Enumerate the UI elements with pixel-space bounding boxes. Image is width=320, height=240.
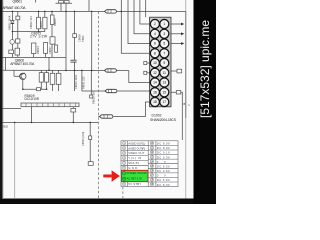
fuse F1 on top bus bbox=[105, 10, 117, 13]
svg-text:R8611 222: R8611 222 bbox=[82, 76, 86, 89]
green highlight row bbox=[122, 170, 148, 181]
box right of row6 bbox=[177, 69, 182, 73]
svg-text:R8604: R8604 bbox=[36, 46, 40, 54]
svg-text:[517x532] upic.me: [517x532] upic.me bbox=[198, 20, 212, 118]
svg-text:C8540 (GM): C8540 (GM) bbox=[81, 132, 85, 146]
wire vertical x=91.7 bbox=[91, 11, 93, 70]
resistor tall box x=44.8 bbox=[43, 17, 47, 29]
svg-text:VIDEO OUT: VIDEO OUT bbox=[128, 151, 144, 155]
svg-text:DC 0.1V: DC 0.1V bbox=[157, 151, 170, 155]
diode on x=74.5 bbox=[73, 34, 77, 38]
table text left bbox=[128, 141, 145, 186]
pads left of rows5-6 bbox=[144, 62, 147, 65]
svg-text:DC 8.5V: DC 8.5V bbox=[157, 165, 170, 169]
svg-text:D1902: D1902 bbox=[152, 114, 162, 118]
svg-text:Q8601: Q8601 bbox=[13, 0, 23, 4]
svg-text:11: 11 bbox=[163, 71, 167, 75]
svg-text:1: 1 bbox=[163, 22, 165, 26]
wire row8 right stub bbox=[171, 92, 182, 140]
wire tick x=35.5 top bbox=[35, 0, 37, 3]
svg-text:R8612 100: R8612 100 bbox=[91, 91, 95, 104]
svg-text:DC 5.0V: DC 5.0V bbox=[157, 178, 170, 182]
svg-text:AP5A6T 400-70A: AP5A6T 400-70A bbox=[10, 62, 35, 66]
fuse F3 y=91 bbox=[105, 89, 117, 92]
wire vertical x=12.4 bbox=[11, 11, 13, 31]
wire vertical x=14.7 bottom bbox=[14, 122, 16, 198]
resistor box x=52 tall bbox=[50, 15, 54, 25]
component boxes upper-left bbox=[9, 1, 182, 166]
svg-text:27V 1/2W: 27V 1/2W bbox=[30, 35, 47, 39]
wire horizontal y=31.6 bbox=[12, 31, 44, 33]
wire bus y=122.4 bbox=[2, 121, 98, 123]
wire vertical x=17.8 bbox=[17, 11, 19, 57]
svg-text:4: 4 bbox=[154, 32, 156, 36]
svg-text:16: 16 bbox=[153, 91, 157, 95]
lower band box 5 bbox=[55, 45, 58, 52]
wire vertical x=66 bbox=[65, 11, 67, 70]
svg-text:C8604: C8604 bbox=[39, 21, 43, 29]
table text right bbox=[157, 142, 170, 187]
wire Q8602 base bbox=[14, 75, 20, 77]
svg-text:TB8C: TB8C bbox=[81, 35, 85, 42]
connector pin numbers bbox=[153, 22, 166, 104]
boxes under bus70 bbox=[50, 73, 55, 84]
svg-text:R8605: R8605 bbox=[53, 18, 57, 26]
svg-text:C8607: C8607 bbox=[48, 46, 52, 54]
svg-text:15: 15 bbox=[162, 91, 166, 95]
wire stub x=45 lower bbox=[45, 53, 47, 57]
resistor box x=52 second bbox=[50, 37, 55, 44]
svg-text:SDA 5V: SDA 5V bbox=[128, 161, 139, 165]
voltage table bbox=[121, 141, 178, 187]
svg-text:13: 13 bbox=[162, 81, 166, 85]
wire stair to row4 bbox=[121, 0, 149, 53]
diode symbol on x=12.4 bbox=[11, 21, 15, 24]
wire vertical x=49 bbox=[48, 57, 50, 70]
svg-text:7: 7 bbox=[163, 52, 165, 56]
wire elbow to row7 bbox=[129, 71, 150, 83]
red arrow bbox=[103, 170, 120, 181]
wire right arrows rows 1-3 bbox=[171, 23, 181, 25]
wire fuse line row9 bbox=[98, 116, 99, 118]
svg-text:C8610 1000: C8610 1000 bbox=[74, 74, 78, 89]
svg-text:R8601 100K: R8601 100K bbox=[7, 15, 11, 30]
fuse F4 y=116.5 bbox=[100, 115, 113, 118]
svg-text:6: 6 bbox=[154, 42, 156, 46]
svg-text:G: G bbox=[188, 103, 190, 107]
wire top bus bbox=[2, 10, 186, 12]
wire fuse line row8 bbox=[82, 90, 105, 92]
zener under strip bbox=[71, 109, 76, 113]
transistor circle x=12.4 bbox=[10, 40, 15, 45]
wire stair to row3 bbox=[128, 0, 150, 44]
wire vertical x=44.8 bbox=[44, 11, 46, 31]
wire bus y=108.6 left bbox=[2, 108, 21, 110]
svg-text:DC 3.3V: DC 3.3V bbox=[157, 155, 170, 159]
wire vertical x=52 long bbox=[51, 11, 53, 57]
black frame: left edge bbox=[0, 0, 2, 204]
zener on x=17.8 bbox=[16, 39, 20, 43]
top pin boxes bbox=[59, 1, 64, 3]
svg-text:POWER ON/OFF: POWER ON/OFF bbox=[127, 171, 148, 175]
junction dots bbox=[12, 11, 123, 124]
table circled numbers col3 bbox=[150, 141, 153, 186]
wire vertical x=90.2 bottom bbox=[89, 122, 91, 135]
wire stair to row1 bbox=[140, 0, 150, 24]
small box x=90 end bbox=[88, 162, 93, 166]
right half rows bbox=[148, 144, 178, 146]
svg-text:5V STBY: 5V STBY bbox=[128, 182, 141, 186]
wire vertical x=5.6 bbox=[5, 57, 7, 70]
svg-text:B: B bbox=[184, 102, 186, 106]
lower band box 2 bbox=[15, 48, 20, 55]
svg-text:18: 18 bbox=[153, 100, 157, 104]
paper background bbox=[0, 0, 216, 204]
svg-text:12: 12 bbox=[153, 71, 157, 75]
svg-text:AUDIO OUT(L): AUDIO OUT(L) bbox=[128, 141, 145, 145]
wire vertical x=74.5 cap branch bbox=[74, 11, 76, 60]
wire left page edge vertical bbox=[2, 0, 4, 198]
lower band box 4 bbox=[44, 43, 48, 54]
terminal strip bbox=[21, 103, 79, 107]
svg-text:3: 3 bbox=[163, 32, 165, 36]
svg-text:9: 9 bbox=[163, 61, 165, 65]
wire bus y=70 bbox=[2, 69, 105, 71]
resistor inline on y=89 bbox=[37, 88, 41, 91]
wire vertical x=12.4 lower bbox=[11, 32, 13, 40]
transistor Q8602 bbox=[20, 73, 26, 79]
box on row8 right line bbox=[176, 91, 181, 94]
table circle digits col3 bbox=[151, 142, 154, 186]
arrowheads right of connector bbox=[181, 23, 184, 45]
fuse F2 y=70.5 bbox=[105, 69, 117, 72]
resistor tall box x=38.6 bbox=[37, 17, 41, 29]
wire row6 right stub bbox=[171, 70, 177, 72]
svg-text:2: 2 bbox=[154, 22, 156, 26]
svg-text:5: 5 bbox=[163, 42, 165, 46]
capacitor C8609 plates bbox=[70, 60, 76, 62]
wire vertical x=38.6 bbox=[38, 11, 40, 31]
svg-text:DC12/10R: DC12/10R bbox=[25, 97, 40, 101]
svg-text:14: 14 bbox=[153, 81, 157, 85]
svg-text:10: 10 bbox=[153, 61, 157, 65]
lower band box 1 bbox=[9, 50, 14, 54]
lower band box 3 bbox=[32, 43, 36, 54]
wire stair to row2 bbox=[134, 0, 150, 34]
rotated small labels bbox=[0, 15, 95, 146]
watermark bar bbox=[194, 0, 217, 204]
resistor pair right of Q8602 bbox=[39, 73, 43, 83]
svg-text:DC 8.0V: DC 8.0V bbox=[157, 142, 170, 146]
wire stair 5th bbox=[145, 0, 147, 17]
svg-text:GND: GND bbox=[128, 166, 137, 170]
connector D1902 body bbox=[150, 17, 171, 107]
svg-text:AP5A6T 400-70A: AP5A6T 400-70A bbox=[3, 6, 27, 10]
wire row5/6 left pads bbox=[147, 62, 150, 64]
black frame: bottom strip bbox=[0, 199, 216, 205]
wire transistor area bbox=[22, 79, 24, 89]
svg-text:Y(C) IN: Y(C) IN bbox=[128, 156, 141, 160]
left half rows bbox=[121, 145, 148, 147]
svg-text:AC DET 3.3V: AC DET 3.3V bbox=[127, 177, 143, 181]
dashed verticals bbox=[97, 11, 99, 198]
table circled numbers left column bbox=[122, 142, 125, 186]
svg-text:SHAN/2004-18CS: SHAN/2004-18CS bbox=[150, 118, 177, 122]
wire verticals under bus70 bbox=[52, 70, 54, 73]
svg-text:DC 8.0V: DC 8.0V bbox=[157, 183, 170, 187]
svg-text:8: 8 bbox=[154, 52, 156, 56]
svg-text:AUDIO OUT(R): AUDIO OUT(R) bbox=[128, 146, 145, 150]
wire vertical x=89 top bbox=[88, 0, 90, 11]
svg-text:C8608: C8608 bbox=[77, 34, 81, 42]
svg-text:DC 8.0V: DC 8.0V bbox=[157, 146, 170, 150]
wire top boxes stub bbox=[56, 2, 73, 4]
green row text bbox=[127, 171, 148, 180]
small box x=90 inline bbox=[89, 136, 92, 140]
wire vertical x=91.3 lower bbox=[90, 70, 92, 95]
svg-text:17: 17 bbox=[162, 100, 166, 104]
tiny box under x=91 bbox=[90, 95, 93, 98]
connector pins bbox=[150, 19, 169, 106]
svg-text:C8602 104: C8602 104 bbox=[29, 16, 33, 29]
svg-text:DC 3.6V: DC 3.6V bbox=[157, 169, 170, 173]
wire terminal strip drop bbox=[72, 107, 74, 109]
wire mid bus bbox=[2, 56, 66, 58]
table circle digits col1 bbox=[123, 142, 125, 186]
resistor box on x=17.8 bbox=[16, 16, 20, 20]
wire page right edge bbox=[185, 0, 187, 199]
